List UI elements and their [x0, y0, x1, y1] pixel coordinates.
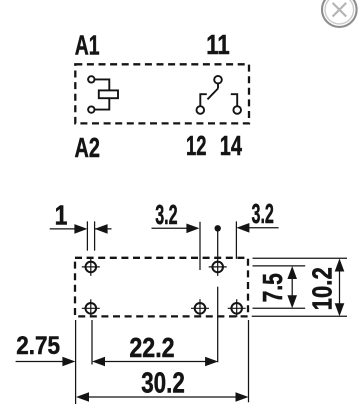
svg-text:3.2: 3.2 — [155, 199, 177, 230]
wire from 11 — [217, 83, 219, 88]
mounting hole pin A2 (bottom-left) — [82, 299, 100, 317]
body right edge extension — [248, 320, 250, 402]
dimension 30.2 line with arrows — [76, 392, 249, 402]
svg-text:10.2: 10.2 — [307, 267, 338, 310]
extension line hole 12 column — [199, 222, 201, 270]
wire A1 to coil — [95, 79, 110, 90]
mounting hole pin 14 (bottom-right) — [228, 299, 246, 317]
wire coil to A2 — [95, 98, 110, 109]
svg-text:A1: A1 — [75, 29, 100, 60]
coil body rectangle — [99, 90, 118, 98]
coil terminal A2 pin circle — [88, 106, 94, 112]
NO contact terminal 14 pin circle — [233, 106, 241, 114]
svg-text:12: 12 — [186, 130, 206, 161]
svg-text:14: 14 — [220, 130, 243, 161]
common terminal 11 pin circle — [214, 76, 222, 84]
dimension 3.2 left arrow — [152, 221, 237, 362]
body left edge extension — [75, 320, 77, 404]
dimension 1 mm arrows — [50, 221, 112, 250]
contact blade — [208, 89, 219, 100]
svg-text:30.2: 30.2 — [141, 368, 185, 400]
svg-text:2.75: 2.75 — [16, 332, 60, 360]
bottom extension lines — [76, 320, 249, 404]
dimension 7.5 vertical — [287, 266, 297, 308]
relay outline dashed box (schematic) — [75, 64, 249, 123]
mounting hole pin 11 (top-right) — [209, 258, 227, 276]
wire from 12 — [200, 94, 207, 106]
node dot on dimension line — [215, 225, 221, 231]
svg-text:1: 1 — [55, 199, 68, 230]
svg-text:3.2: 3.2 — [252, 198, 274, 229]
svg-text:22.2: 22.2 — [129, 332, 174, 363]
body bottom edge extension — [252, 315, 347, 317]
left pin column extension — [91, 320, 93, 365]
extension line from dot to hole 11 — [217, 228, 219, 257]
mounting hole pin 12 (bottom-middle) — [191, 299, 209, 317]
bottom pin row extension — [253, 307, 306, 309]
right side extension lines — [252, 258, 347, 316]
coil terminal A1 pin circle — [88, 76, 94, 82]
mounting hole pin A1 (top-left) — [82, 258, 100, 276]
wire from 14 — [231, 94, 237, 106]
changeover contact — [197, 76, 242, 114]
NC contact terminal 12 pin circle — [197, 106, 205, 114]
extension line hole 14 column — [235, 221, 237, 259]
dimension 3.2 right arrow — [236, 223, 278, 233]
close button — [322, 0, 357, 27]
svg-text:7.5: 7.5 — [257, 273, 288, 302]
top pin row extension — [253, 265, 306, 267]
dimension 2.75 arrow — [16, 357, 76, 367]
relay coil K1 — [88, 76, 118, 113]
svg-text:11: 11 — [206, 29, 229, 60]
body top edge extension — [253, 257, 348, 259]
svg-text:A2: A2 — [75, 132, 100, 163]
extension lines pin width — [87, 221, 94, 250]
footprint dashed outline — [75, 258, 248, 317]
dimension 22.2 line with arrows — [92, 357, 218, 367]
dimension 10.2 vertical — [335, 259, 345, 317]
